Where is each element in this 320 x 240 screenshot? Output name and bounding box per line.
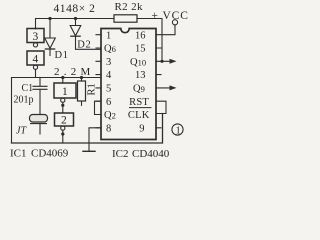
IC2 right pin stubs — [156, 48, 161, 128]
svg-text:4: 4 — [33, 53, 39, 65]
inverter U2 output bubble — [61, 126, 65, 130]
crystal JT capsule — [30, 115, 48, 123]
diode D1 bottom lead — [49, 49, 51, 55]
svg-text:1: 1 — [106, 30, 111, 41]
wire R2 right to corner and down to Q10 row — [137, 19, 162, 62]
svg-text:2: 2 — [61, 115, 67, 127]
svg-text:IC1: IC1 — [10, 148, 27, 160]
svg-text:15: 15 — [135, 44, 146, 55]
CLK overline — [130, 107, 152, 109]
arrowhead Q10 — [170, 59, 177, 64]
svg-text:Q9: Q9 — [133, 84, 145, 95]
IC2 pin8 ground wire — [89, 128, 101, 152]
IC2 left pin stubs — [96, 35, 101, 128]
inverter U1 output bubble — [61, 98, 65, 102]
svg-text:R1: R1 — [87, 83, 98, 95]
svg-text:CLK: CLK — [128, 110, 150, 121]
VCC terminal circle — [172, 20, 177, 25]
svg-text:IC2: IC2 — [112, 148, 129, 160]
capacitor C1 bottom lead — [39, 89, 41, 114]
svg-text:5: 5 — [106, 84, 111, 95]
svg-text:9: 9 — [139, 123, 144, 134]
svg-text:1: 1 — [62, 86, 68, 98]
svg-text:R2 2k: R2 2k — [115, 1, 143, 13]
svg-text:3: 3 — [106, 57, 111, 68]
diode D1 triangle and bar — [45, 38, 56, 48]
wire pin6 to Q2 bracket — [95, 101, 102, 114]
svg-text:1: 1 — [176, 125, 181, 136]
resistor R1 body — [78, 81, 86, 101]
wire pin16 to VCC — [156, 25, 175, 35]
svg-text:CD4069: CD4069 — [31, 148, 69, 160]
crystal JT lower plate — [31, 123, 47, 125]
capacitor C1 plates — [33, 86, 47, 89]
svg-text:3: 3 — [33, 31, 39, 43]
crystal JT bottom lead — [39, 124, 41, 134]
svg-text:8: 8 — [106, 123, 111, 134]
svg-text:13: 13 — [135, 70, 146, 81]
wire U1 output node to R1 bottom and U2 input — [62, 102, 64, 113]
wire U4 output down-left-down to bottom rail — [12, 69, 36, 143]
svg-text:JT: JT — [16, 126, 27, 137]
ground bar — [83, 150, 95, 152]
svg-text:6: 6 — [106, 97, 111, 108]
svg-text:201p: 201p — [14, 95, 34, 106]
inverter U3 output bubble — [33, 43, 37, 47]
diode D2 triangle and bar — [70, 26, 81, 36]
terminal output circle 1 — [172, 124, 183, 135]
wire oscillator input net y77.5 — [12, 77, 102, 79]
inverter U3 box — [27, 29, 44, 43]
inverter U2 box — [55, 113, 74, 126]
inverter U4 box — [27, 51, 44, 65]
inverter U1 input stub — [62, 78, 64, 84]
svg-text:4148× 2: 4148× 2 — [54, 3, 96, 15]
svg-text:16: 16 — [135, 30, 146, 41]
IC2 CD4040 box — [101, 29, 156, 140]
svg-text:Q6: Q6 — [104, 44, 116, 55]
svg-text:C1: C1 — [22, 83, 34, 94]
svg-text:CD4040: CD4040 — [132, 148, 170, 160]
resistor R1 leads — [81, 78, 83, 106]
svg-text:Q10: Q10 — [130, 57, 146, 68]
svg-text:+ VCC: + VCC — [152, 10, 189, 22]
diode D1 top lead — [49, 19, 51, 39]
svg-text:4: 4 — [106, 70, 112, 81]
resistor R2 body — [114, 15, 137, 22]
inverter U1 box — [54, 83, 76, 98]
svg-text:2 . 2 M: 2 . 2 M — [54, 66, 91, 78]
wire Q10 arrow — [156, 60, 174, 62]
arrowhead Q9 — [170, 85, 177, 90]
wire Q9 arrow — [156, 87, 174, 89]
inverter U4 output bubble — [33, 65, 37, 69]
diode D2 top lead — [75, 19, 77, 26]
diode D2 bottom lead to IC pin2 — [76, 36, 102, 49]
wire U2 output to crystal wire and rail — [62, 130, 64, 143]
junction dots — [45, 17, 177, 136]
wire RST to CLK bracket — [156, 101, 166, 113]
svg-text:D1: D1 — [55, 50, 69, 61]
svg-text:D2: D2 — [77, 39, 91, 50]
wire bottom rail to CLK riser — [12, 114, 163, 144]
wire top net (diode OR / reset net) — [36, 19, 115, 30]
svg-text:RST: RST — [129, 97, 149, 108]
capacitor C1 top lead — [39, 78, 41, 87]
background paper — [0, 0, 195, 162]
svg-text:Q2: Q2 — [104, 110, 116, 121]
